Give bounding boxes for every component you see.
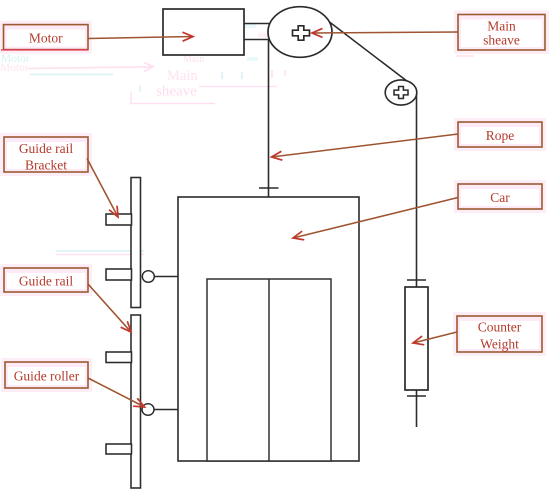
svg-text:Guide rail: Guide rail bbox=[19, 274, 74, 289]
roller arm lower bbox=[154, 409, 178, 411]
guide roller lower bbox=[142, 404, 154, 416]
svg-text:Counter: Counter bbox=[478, 320, 522, 335]
leader Guide roller bbox=[88, 378, 145, 407]
svg-text:Weight: Weight bbox=[480, 337, 519, 352]
label glow Guide rail Bracket bbox=[0, 133, 92, 176]
motor shaft bbox=[244, 24, 269, 40]
bracket 1 bbox=[106, 214, 132, 225]
ghost underline bbox=[131, 92, 215, 104]
label box Motor bbox=[4, 25, 89, 50]
label glow Rope bbox=[454, 118, 546, 151]
main sheave hub cross bbox=[293, 26, 310, 40]
roller arm upper bbox=[154, 276, 178, 278]
rope hitch bar above counterweight bbox=[407, 279, 426, 281]
svg-text:Guide rail: Guide rail bbox=[19, 141, 74, 156]
ghost dashes under motor bbox=[236, 24, 256, 28]
label box Guide roller bbox=[5, 362, 88, 388]
svg-text:Motor: Motor bbox=[29, 30, 63, 45]
ghost red underline Motor box bbox=[1, 49, 88, 51]
svg-text:Bracket: Bracket bbox=[25, 158, 67, 173]
ghost ticks bbox=[139, 86, 141, 92]
rope to car bbox=[268, 40, 270, 197]
label box Counter Weight bbox=[457, 316, 542, 352]
svg-text:Car: Car bbox=[490, 190, 510, 205]
svg-text:Main: Main bbox=[167, 68, 198, 84]
rope hitch bar below counterweight bbox=[407, 395, 426, 397]
car door frame bbox=[207, 279, 331, 461]
leader Motor bbox=[88, 37, 193, 39]
ghost lines mid left bbox=[56, 250, 144, 252]
svg-text:sheave: sheave bbox=[156, 84, 197, 100]
leader Guide rail Bracket bbox=[87, 159, 118, 218]
deflector sheave bbox=[385, 80, 417, 105]
deflector sheave hub cross bbox=[394, 87, 408, 99]
ghost arrow pink bbox=[28, 63, 153, 72]
guide rail lower bbox=[131, 315, 141, 488]
bracket 4 bbox=[106, 444, 132, 454]
car bbox=[178, 197, 359, 461]
svg-text:Rope: Rope bbox=[486, 128, 515, 143]
label box Guide rail bbox=[4, 268, 88, 292]
label box Car bbox=[458, 184, 542, 209]
svg-text:Guide roller: Guide roller bbox=[14, 369, 80, 384]
leader Counter Weight bbox=[413, 332, 457, 343]
leader Guide rail bbox=[88, 284, 131, 332]
label glow Motor bbox=[0, 21, 92, 54]
label glow Guide rail bbox=[0, 264, 92, 296]
guide rail upper bbox=[131, 178, 141, 308]
leader Main sheave bbox=[312, 32, 458, 33]
bracket 3 bbox=[106, 352, 132, 363]
motor M bbox=[163, 9, 244, 55]
main sheave bbox=[268, 7, 332, 58]
rope below counterweight bbox=[416, 390, 418, 427]
label box Main sheave bbox=[458, 15, 545, 51]
ghost line right of sheave bbox=[199, 86, 277, 88]
label box Rope bbox=[458, 122, 542, 147]
car door divider bbox=[268, 279, 270, 461]
svg-text:sheave: sheave bbox=[483, 33, 520, 48]
label glow Main sheave bbox=[454, 11, 549, 55]
ghost tick top right bbox=[456, 55, 474, 57]
ghost line cyan bbox=[30, 74, 113, 76]
rope to counterweight bbox=[416, 94, 418, 287]
label glow Counter Weight bbox=[453, 312, 546, 356]
leader Car bbox=[293, 198, 458, 239]
rope hitch bar above car bbox=[259, 187, 279, 189]
rope tangent segment bbox=[321, 16, 408, 82]
label box Guide rail Bracket bbox=[4, 137, 88, 172]
label glow Guide roller bbox=[1, 358, 92, 392]
guide roller upper bbox=[142, 271, 154, 283]
leader Rope bbox=[272, 134, 459, 157]
svg-text:Motor: Motor bbox=[0, 62, 29, 74]
bracket 2 bbox=[106, 269, 132, 280]
label glow Car bbox=[454, 180, 546, 213]
svg-text:Main: Main bbox=[487, 19, 516, 34]
counterweight bbox=[405, 287, 428, 390]
